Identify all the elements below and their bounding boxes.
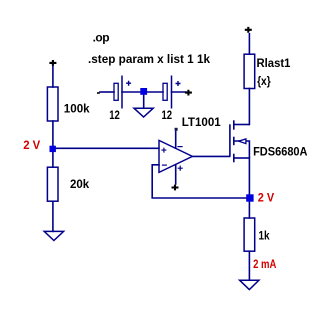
svg-text:2 mA: 2 mA	[253, 257, 277, 271]
svg-text:{x}: {x}	[257, 74, 271, 88]
svg-text:12: 12	[109, 108, 120, 122]
svg-text:LT1001: LT1001	[182, 115, 221, 129]
svg-text:2 V: 2 V	[258, 191, 274, 205]
svg-text:FDS6680A: FDS6680A	[253, 145, 308, 159]
svg-text:1k: 1k	[259, 228, 270, 242]
svg-text:Rlast1: Rlast1	[257, 56, 291, 70]
svg-text:100k: 100k	[64, 102, 90, 116]
svg-text:20k: 20k	[70, 177, 90, 191]
svg-text:.op: .op	[93, 31, 110, 45]
svg-text:.step param x list 1 1k: .step param x list 1 1k	[88, 52, 210, 66]
svg-text:2 V: 2 V	[23, 138, 40, 152]
svg-text:12: 12	[162, 108, 173, 122]
